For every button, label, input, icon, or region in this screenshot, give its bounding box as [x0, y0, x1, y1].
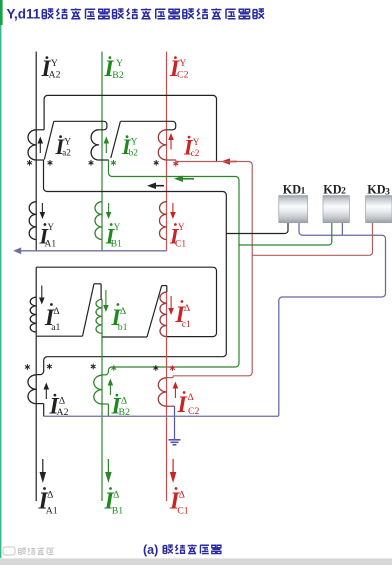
svg-text:C2: C2	[188, 406, 200, 417]
svg-text:Y: Y	[178, 222, 185, 232]
svg-text:Δ: Δ	[113, 490, 119, 501]
svg-text:KD: KD	[283, 182, 301, 196]
svg-text:Δ: Δ	[184, 303, 190, 314]
svg-text:Δ: Δ	[59, 395, 65, 406]
svg-text:b1: b1	[118, 322, 128, 333]
svg-text:Y: Y	[193, 138, 200, 148]
svg-text:A1: A1	[46, 506, 58, 517]
svg-text:2: 2	[341, 186, 346, 196]
svg-text:KD: KD	[367, 182, 385, 196]
svg-text:C2: C2	[177, 69, 189, 80]
svg-text:C1: C1	[177, 506, 189, 517]
svg-text:B1: B1	[112, 506, 124, 517]
svg-text:B1: B1	[111, 240, 122, 250]
svg-text:C1: C1	[175, 240, 186, 250]
svg-text:Δ: Δ	[120, 306, 126, 317]
svg-text:Y: Y	[131, 138, 138, 148]
svg-text:A1: A1	[45, 240, 57, 250]
svg-text:a1: a1	[51, 322, 60, 333]
svg-text:B2: B2	[112, 70, 124, 81]
svg-text:Y: Y	[116, 58, 123, 69]
svg-text:b2: b2	[129, 148, 139, 158]
svg-text:Δ: Δ	[53, 306, 59, 317]
svg-text:c2: c2	[191, 149, 200, 159]
svg-text:Y: Y	[64, 138, 71, 148]
svg-text:Y: Y	[179, 58, 186, 69]
svg-text:Y: Y	[48, 222, 55, 232]
svg-text:Y: Y	[114, 222, 121, 232]
svg-text:Δ: Δ	[188, 392, 194, 403]
svg-text:Δ: Δ	[121, 395, 127, 406]
svg-text:A2: A2	[49, 69, 61, 80]
svg-text:Y,d11: Y,d11	[7, 7, 41, 22]
svg-text:Δ: Δ	[179, 490, 185, 501]
svg-text:(a): (a)	[143, 543, 158, 557]
svg-text:a2: a2	[62, 148, 71, 158]
svg-text:Δ: Δ	[47, 490, 53, 501]
svg-text:c1: c1	[182, 319, 191, 330]
svg-text:I: I	[177, 392, 188, 418]
svg-text:1: 1	[301, 186, 306, 196]
svg-text:KD: KD	[323, 182, 341, 196]
svg-text:Y: Y	[51, 58, 58, 69]
svg-text:3: 3	[385, 187, 390, 197]
